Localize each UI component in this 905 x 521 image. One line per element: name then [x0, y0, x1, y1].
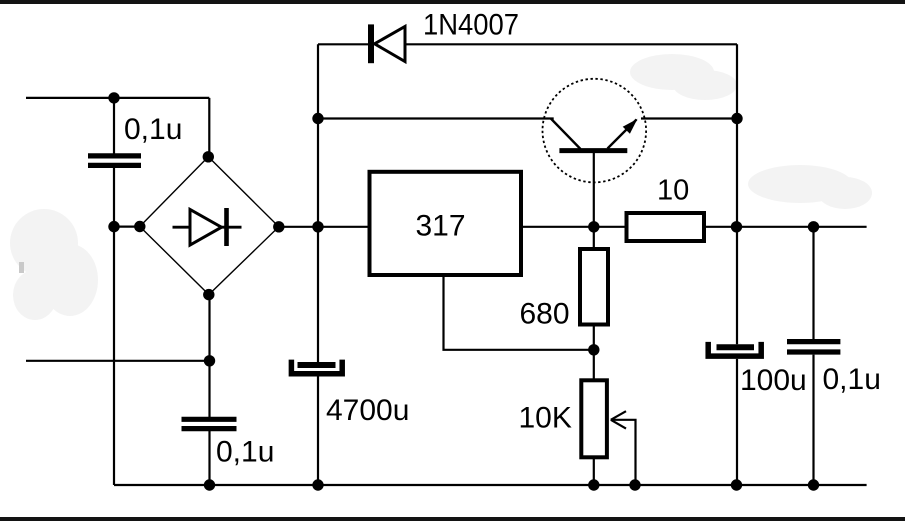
bridge rectifier B1 (diamond) — [140, 157, 279, 295]
wire: C1 bottom lead down to ground rail — [113, 168, 115, 485]
wire: 317 output to resistor R1 — [523, 226, 627, 228]
node: bridge bottom vertex — [203, 289, 214, 300]
resistor R2 680 — [520, 249, 609, 331]
value label 4700u — [326, 394, 409, 427]
wire: right bus x=737 (from top rail down to rail) — [736, 44, 738, 485]
wire: transistor base wire (horizontal into Q1) — [318, 117, 554, 119]
node: junction right bus and transistor lead — [731, 113, 742, 124]
svg-text:0,1u: 0,1u — [823, 363, 881, 396]
svg-text:10K: 10K — [519, 402, 572, 435]
regulator U1 317 — [370, 172, 522, 275]
node: junction of input line 1 and C1 branch — [108, 92, 119, 103]
svg-text:317: 317 — [416, 210, 466, 243]
capacitor C2 0,1u (bottom left) — [182, 419, 237, 428]
value label 0,1u for C2 — [216, 436, 274, 469]
svg-text:1N4007: 1N4007 — [423, 9, 519, 42]
wire: R3 wiper arm from ground — [611, 411, 636, 485]
node: output junction at right bus — [731, 221, 742, 232]
node: ground rail junction right bus — [731, 479, 742, 490]
capacitor C1 0,1u (top left) — [88, 156, 141, 166]
wire: 0,1u output branch vertical x=813.5 — [812, 227, 814, 485]
resistor R1 10 — [627, 175, 705, 242]
transistor Q1 (pass transistor, dotted circle) — [543, 79, 647, 183]
wire: 317 ADJ pin down and right — [444, 275, 594, 350]
wire: transistor right lead to output bus — [641, 117, 737, 119]
svg-text:680: 680 — [520, 298, 570, 331]
node: junction of bus with transistor base wire — [312, 113, 323, 124]
wire: bus to 317 input pin — [318, 226, 368, 228]
node: main unregulated DC node — [312, 221, 323, 232]
node: output junction at 0,1u branch — [808, 221, 819, 232]
wire: link to bridge left vertex — [114, 226, 140, 228]
capacitor C4 100u (polarized) — [708, 342, 761, 356]
wire: bridge bottom vertical down to ground rail — [208, 295, 210, 485]
wire: R1 right lead to output node — [706, 226, 867, 228]
svg-text:0,1u: 0,1u — [124, 113, 182, 146]
diode D1 1N4007 — [371, 24, 405, 63]
wire: top rail with D1 in series — [318, 43, 737, 45]
capacitor C5 0,1u (output) — [787, 342, 840, 352]
wire: R2 bottom lead to ADJ junction — [593, 327, 595, 381]
wire: R3 bottom lead to ground rail — [593, 457, 595, 485]
svg-text:0,1u: 0,1u — [216, 436, 274, 469]
node: ground rail junction C5 — [808, 479, 819, 490]
node: ground rail junction R3 — [588, 479, 599, 490]
node: ADJ junction (R2/R3) — [588, 344, 599, 355]
value label 1N4007 — [423, 9, 519, 42]
svg-text:100u: 100u — [740, 364, 807, 397]
node: C1 lower junction — [108, 221, 119, 232]
wire: AC input line 2 (lower left horizontal) — [26, 360, 210, 362]
wire: AC input line 1 (top left horizontal) — [26, 97, 209, 99]
svg-text:10: 10 — [657, 175, 689, 207]
node: ground rail junction main bus — [312, 479, 323, 490]
wire: bridge right vertex to main positive node — [279, 226, 318, 228]
node: junction input line 2 with bridge bottom branch — [204, 355, 215, 366]
node: ground rail junction bridge branch — [204, 479, 215, 490]
wire: ground rail (bottom) — [114, 484, 867, 486]
potentiometer R3 10K — [519, 380, 607, 457]
value label 100u — [740, 364, 807, 397]
node: ground rail junction wiper — [629, 479, 640, 490]
node: bridge top vertex — [203, 151, 214, 162]
wire: main vertical bus x=318 (up to diode corner, down to 4700u) — [317, 44, 319, 485]
svg-text:4700u: 4700u — [326, 394, 409, 427]
value label 0,1u for C1 — [124, 113, 182, 146]
capacitor C3 4700u (polarized) — [291, 360, 342, 374]
node: bridge left vertex — [134, 221, 145, 232]
node: junction output wire and transistor base leg — [588, 221, 599, 232]
wire: vertical from input line 1 down to bridge top — [208, 98, 210, 158]
wire: C1 top lead — [113, 98, 115, 154]
wire: transistor base leg down through junction to R2 — [593, 153, 595, 250]
node: bridge right vertex — [273, 221, 284, 232]
value label 0,1u for C5 — [823, 363, 881, 396]
